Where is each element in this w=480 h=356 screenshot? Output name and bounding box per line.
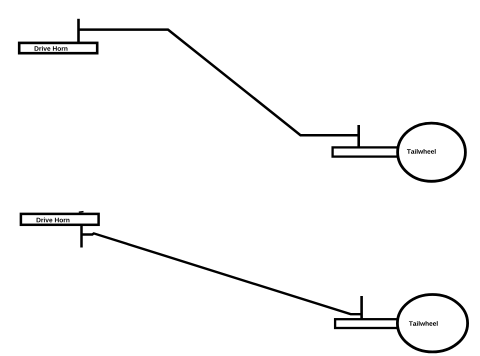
wire: bottom linkage pushrod (81, 233, 361, 314)
component: top steering arm (333, 147, 399, 156)
pin: top drive horn pin (77, 19, 80, 43)
component: bottom Drive Horn plate (21, 214, 99, 225)
wire: top linkage pushrod (horn pin to tailwheel pin) (79, 30, 359, 136)
label: top Tailwheel text (407, 149, 436, 154)
pin: top tailwheel steering pin (357, 125, 360, 148)
label: top Drive Horn text (35, 46, 68, 51)
pin: bottom drive horn pin (80, 226, 83, 248)
label: bottom Drive Horn text (37, 218, 70, 223)
component: bottom steering arm (335, 319, 399, 328)
label: bottom Tailwheel text (409, 321, 438, 326)
stray mark above bottom horn (79, 211, 84, 214)
component: top Tailwheel circle (398, 123, 466, 181)
pin: bottom tailwheel steering pin (360, 296, 363, 320)
component: bottom Tailwheel circle (397, 295, 467, 352)
component: top Drive Horn plate (19, 43, 97, 53)
